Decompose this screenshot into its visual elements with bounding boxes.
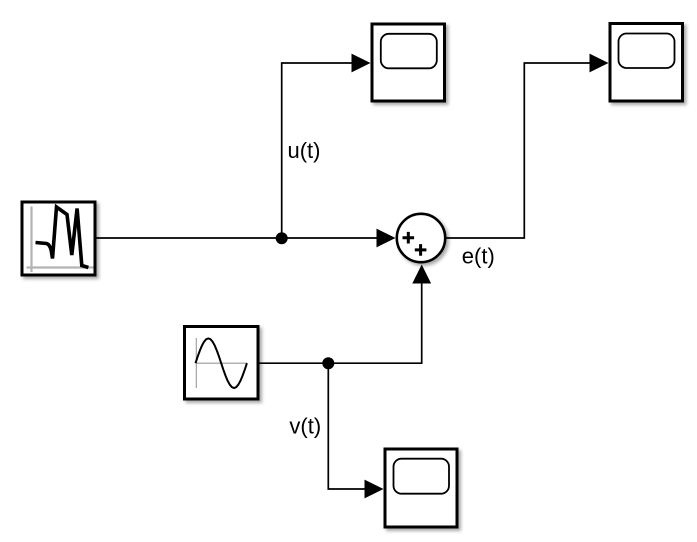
node: junction on u(t) wire [276,232,288,244]
wire: sum output e(t) to Scope2 [447,63,591,238]
scope block Scope2 (top right) [610,24,683,102]
Scope2 screen [619,34,675,69]
source icon waveform [36,207,89,268]
sine wave source block [185,327,259,400]
arrowhead into Scope2 [590,54,609,73]
sum plus sign (left input) [403,232,415,244]
sum plus sign (bottom input) [415,244,427,256]
scope block Scope1 (top middle) [372,24,445,101]
arrowhead into sum left input [377,229,396,248]
Scope1 screen [381,34,437,69]
wire: sine output to sum bottom input [260,284,422,364]
source icon axes [27,207,94,273]
Scope3 screen [394,459,450,494]
sine icon curve [196,338,247,388]
scope block Scope3 (bottom) [385,449,457,527]
wire: source output to sum left input [97,237,378,239]
svg-text:v(t): v(t) [289,414,321,439]
svg-text:e(t): e(t) [462,243,495,268]
sine icon axes [196,338,248,388]
arrowhead into sum bottom input [412,265,431,284]
sum block [397,214,445,262]
signal source block (Signal Editor) [22,202,95,275]
arrowhead into Scope3 [365,480,384,499]
arrowhead into Scope1 [352,54,371,73]
svg-text:u(t): u(t) [288,138,321,163]
node: junction on v(t) wire [322,357,334,369]
wire: branch down from junction to Scope3 [328,363,365,489]
wire: branch up from junction to Scope1 [282,63,352,238]
